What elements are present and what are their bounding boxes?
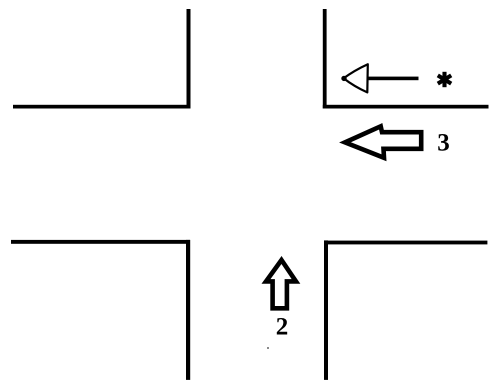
road edge: top-right horizontal xyxy=(323,105,489,109)
thin arrow blunt tip xyxy=(341,76,346,81)
svg-text:3: 3 xyxy=(437,130,450,157)
block arrow 2 (outline, points up) xyxy=(266,260,296,308)
thin arrow shaft xyxy=(367,77,419,81)
road edge: bottom-left vertical xyxy=(186,240,190,380)
road edge: bottom-right vertical xyxy=(324,240,328,380)
road edge: bottom-left horizontal xyxy=(11,240,190,244)
thin arrow head (open triangle, points left) xyxy=(344,64,368,92)
stray dot xyxy=(267,347,269,349)
road edge: top-left horizontal xyxy=(13,105,191,109)
block arrow 3 (outline, points left) xyxy=(345,126,421,158)
svg-text:2: 2 xyxy=(276,314,289,341)
road edge: bottom-right horizontal xyxy=(324,241,487,245)
road edge: top-right vertical xyxy=(323,9,327,108)
asterisk * xyxy=(438,72,451,87)
road edge: top-left vertical xyxy=(187,9,191,108)
